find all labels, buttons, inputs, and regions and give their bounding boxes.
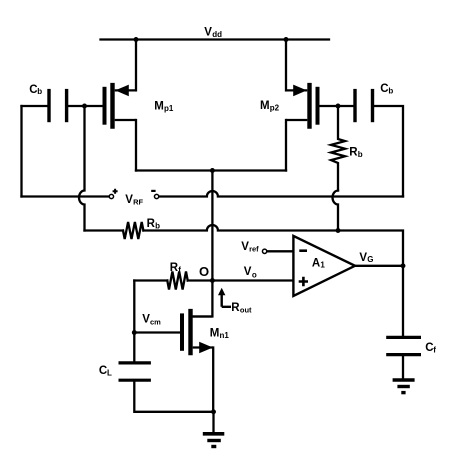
wire Rb row left corner (85, 229, 124, 231)
transistor Mn1 (182, 309, 213, 355)
svg-text:o: o (252, 270, 257, 279)
wire Mp2 drain down (285, 120, 287, 171)
label CL (99, 365, 112, 378)
wire Rf to node O (188, 279, 213, 281)
svg-text:A: A (312, 258, 320, 270)
svg-text:p2: p2 (270, 104, 280, 113)
wire left Cb left plate lead (22, 105, 48, 107)
node VRF+ open terminal (109, 194, 113, 198)
svg-text:b: b (388, 87, 393, 96)
wire Mp2 source to Vdd (285, 40, 287, 91)
svg-text:V: V (359, 252, 367, 264)
svg-text:f: f (433, 346, 436, 355)
wire VG down to Cf (402, 266, 404, 336)
capacitor CL (119, 363, 151, 380)
node Vref open terminal (262, 249, 266, 253)
label Vcm (142, 314, 161, 327)
node Vdd-Mp1 source junction (134, 37, 139, 42)
label Vo (244, 266, 257, 279)
label node O (199, 264, 209, 279)
wire Vdd rail (101, 38, 330, 40)
resistor Rb left zigzag (123, 222, 143, 239)
resistor Rb right vertical zigzag (331, 106, 345, 191)
label op-amp plus input (299, 277, 308, 286)
wire left Cb right plate to Mp1 gate (68, 105, 103, 107)
label Cb right (380, 83, 393, 96)
wire Vo to op-amp plus input (212, 279, 293, 281)
capacitor Cf (386, 337, 421, 354)
wire op-amp output VG (355, 265, 403, 267)
svg-text:p1: p1 (164, 104, 174, 113)
op-amp A1 (293, 236, 355, 296)
label VRF (125, 194, 143, 206)
svg-text:1: 1 (320, 261, 325, 270)
wire Mp1 drain down (135, 120, 137, 171)
svg-text:b: b (37, 87, 42, 96)
wire VRF- line with hop over center vertical (159, 191, 403, 197)
label A1 (312, 258, 326, 270)
wire Vref to op-amp minus input (267, 250, 293, 252)
svg-text:ref: ref (249, 244, 259, 253)
svg-text:C: C (29, 84, 37, 96)
svg-text:O: O (199, 264, 209, 279)
wire left column Rf corner down to CL (133, 281, 135, 362)
label Cb left (29, 84, 42, 96)
wire ground stem (212, 412, 214, 433)
node Vdd-Mp2 source junction (284, 37, 289, 42)
wire drain bus (136, 169, 286, 171)
transistor Mp1 (105, 83, 137, 129)
svg-text:M: M (260, 100, 270, 112)
wire VRF+ line (22, 195, 109, 197)
wire center vertical to node O (211, 171, 213, 281)
node VG junction (401, 263, 406, 268)
node Rb right bottom junction (336, 228, 341, 233)
label Rb right (349, 147, 363, 160)
wire CL bottom down and bottom rail (134, 382, 213, 412)
transistor Mp2 (286, 83, 318, 129)
label VG (359, 252, 373, 264)
wire gate node down with hop over VRF+ line (79, 106, 85, 231)
svg-text:V: V (142, 314, 150, 326)
svg-text:M: M (154, 100, 164, 112)
resistor Rf zigzag (167, 272, 187, 290)
svg-text:dd: dd (212, 30, 222, 39)
label Rout (231, 302, 252, 315)
arrow Rout (218, 288, 231, 307)
wire right Cb left plate to Mp2 gate (320, 105, 354, 107)
label Rb left (147, 218, 161, 231)
svg-text:C: C (99, 365, 107, 377)
node Mp1 gate junction (82, 104, 87, 109)
wire node O down to Mn1 drain (193, 281, 213, 317)
svg-text:cm: cm (150, 317, 161, 326)
label Mp2 (260, 100, 280, 113)
capacitor Cb right (355, 89, 373, 122)
wire Rf left lead (134, 279, 167, 281)
wire Rb row with hop over center vertical (143, 225, 403, 266)
node drain bus center (210, 168, 215, 173)
svg-text:RF: RF (133, 197, 143, 206)
svg-text:n1: n1 (220, 331, 230, 340)
node VRF- open terminal (154, 194, 158, 198)
label minus VRF (151, 190, 155, 192)
svg-text:b: b (358, 150, 363, 159)
label Mp1 (154, 100, 174, 113)
label plus VRF (113, 189, 118, 194)
node Mp2 gate junction (336, 104, 341, 109)
svg-text:V: V (241, 241, 249, 253)
svg-text:G: G (367, 255, 373, 264)
label Mn1 (210, 327, 230, 340)
node O junction (210, 278, 215, 283)
svg-text:f: f (178, 266, 181, 275)
label op-amp minus input (299, 249, 307, 252)
wire Mn1 source down (212, 348, 214, 412)
svg-text:V: V (204, 27, 212, 39)
wire left column down from Cb (20, 106, 22, 197)
ground Cf (393, 380, 415, 393)
wire Vcm node to Mn1 gate (134, 331, 182, 333)
svg-text:M: M (210, 327, 220, 339)
node Vcm gate junction (132, 330, 137, 335)
svg-text:V: V (244, 266, 252, 278)
svg-text:L: L (107, 369, 112, 378)
capacitor Cb left (49, 89, 67, 122)
wire Mp1 source to Vdd (135, 40, 137, 91)
wire Rb right hop over VRF- line (333, 191, 339, 231)
wire right column up to right Cb (374, 106, 403, 197)
label Vdd (204, 27, 222, 39)
wire Cf bottom to ground (402, 356, 404, 378)
ground main (203, 434, 225, 447)
label Vref (241, 241, 259, 254)
svg-text:b: b (155, 222, 160, 231)
node bottom rail junction (211, 409, 216, 414)
svg-text:V: V (125, 194, 133, 206)
label Cf (425, 342, 436, 354)
label Rf (170, 262, 182, 275)
svg-text:C: C (380, 83, 388, 95)
svg-text:out: out (240, 305, 252, 314)
